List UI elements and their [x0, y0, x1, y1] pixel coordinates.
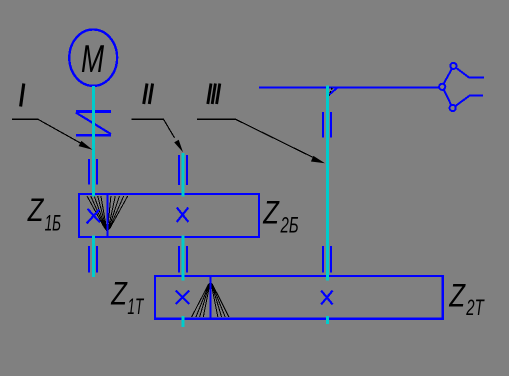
- gear Z2T cross on shaft III: [321, 291, 332, 305]
- gear Z1B cross on shaft I: [87, 209, 100, 224]
- leader arrow for shaft I: [12, 119, 93, 150]
- control rod horizontal line: [259, 86, 439, 88]
- lever linkage with hinge joints: [439, 63, 484, 111]
- coupling on shaft I: [76, 112, 111, 136]
- svg-text:Z: Z: [262, 196, 280, 231]
- gear block T fan hatch: [192, 281, 229, 318]
- svg-text:1Б: 1Б: [45, 210, 62, 235]
- motor label M: [81, 37, 105, 81]
- svg-text:2Б: 2Б: [280, 212, 299, 237]
- svg-text:Z: Z: [110, 277, 128, 312]
- gear block B inner line: [106, 194, 108, 237]
- svg-text:Z: Z: [449, 279, 467, 314]
- gear block B rectangle: [79, 194, 259, 237]
- label I: [21, 84, 24, 107]
- shaft III centerline: [326, 86, 329, 325]
- bearing on shaft I upper: [89, 159, 97, 185]
- pivot marker at shaft III junction: [329, 88, 337, 96]
- leader arrow for shaft II: [132, 119, 184, 152]
- bearing on shaft II upper: [179, 155, 187, 185]
- leader arrow for shaft III: [197, 119, 325, 163]
- bearing on shaft II middle: [179, 246, 187, 273]
- bearing on shaft III lower: [323, 246, 331, 273]
- gear Z2B cross on shaft II: [177, 208, 189, 222]
- shaft I centerline: [92, 86, 95, 277]
- gear block T rectangle: [155, 276, 443, 319]
- gear Z1T cross on shaft II: [176, 291, 189, 304]
- svg-text:1T: 1T: [127, 294, 144, 319]
- svg-text:M: M: [81, 37, 105, 81]
- bearing on shaft III upper: [323, 112, 331, 138]
- shaft II centerline: [182, 153, 185, 327]
- label III: [208, 84, 220, 105]
- motor M circle: [69, 30, 117, 86]
- label Z1B: [27, 193, 61, 235]
- bearing on shaft I lower: [89, 246, 97, 273]
- label II: [144, 84, 153, 105]
- gear block B fan hatch: [87, 196, 128, 233]
- label Z2T: [449, 279, 485, 320]
- svg-text:2T: 2T: [466, 295, 485, 320]
- label Z1T: [110, 277, 144, 319]
- gear block T inner line: [209, 276, 211, 319]
- svg-text:Z: Z: [27, 193, 45, 228]
- label Z2B: [262, 196, 298, 237]
